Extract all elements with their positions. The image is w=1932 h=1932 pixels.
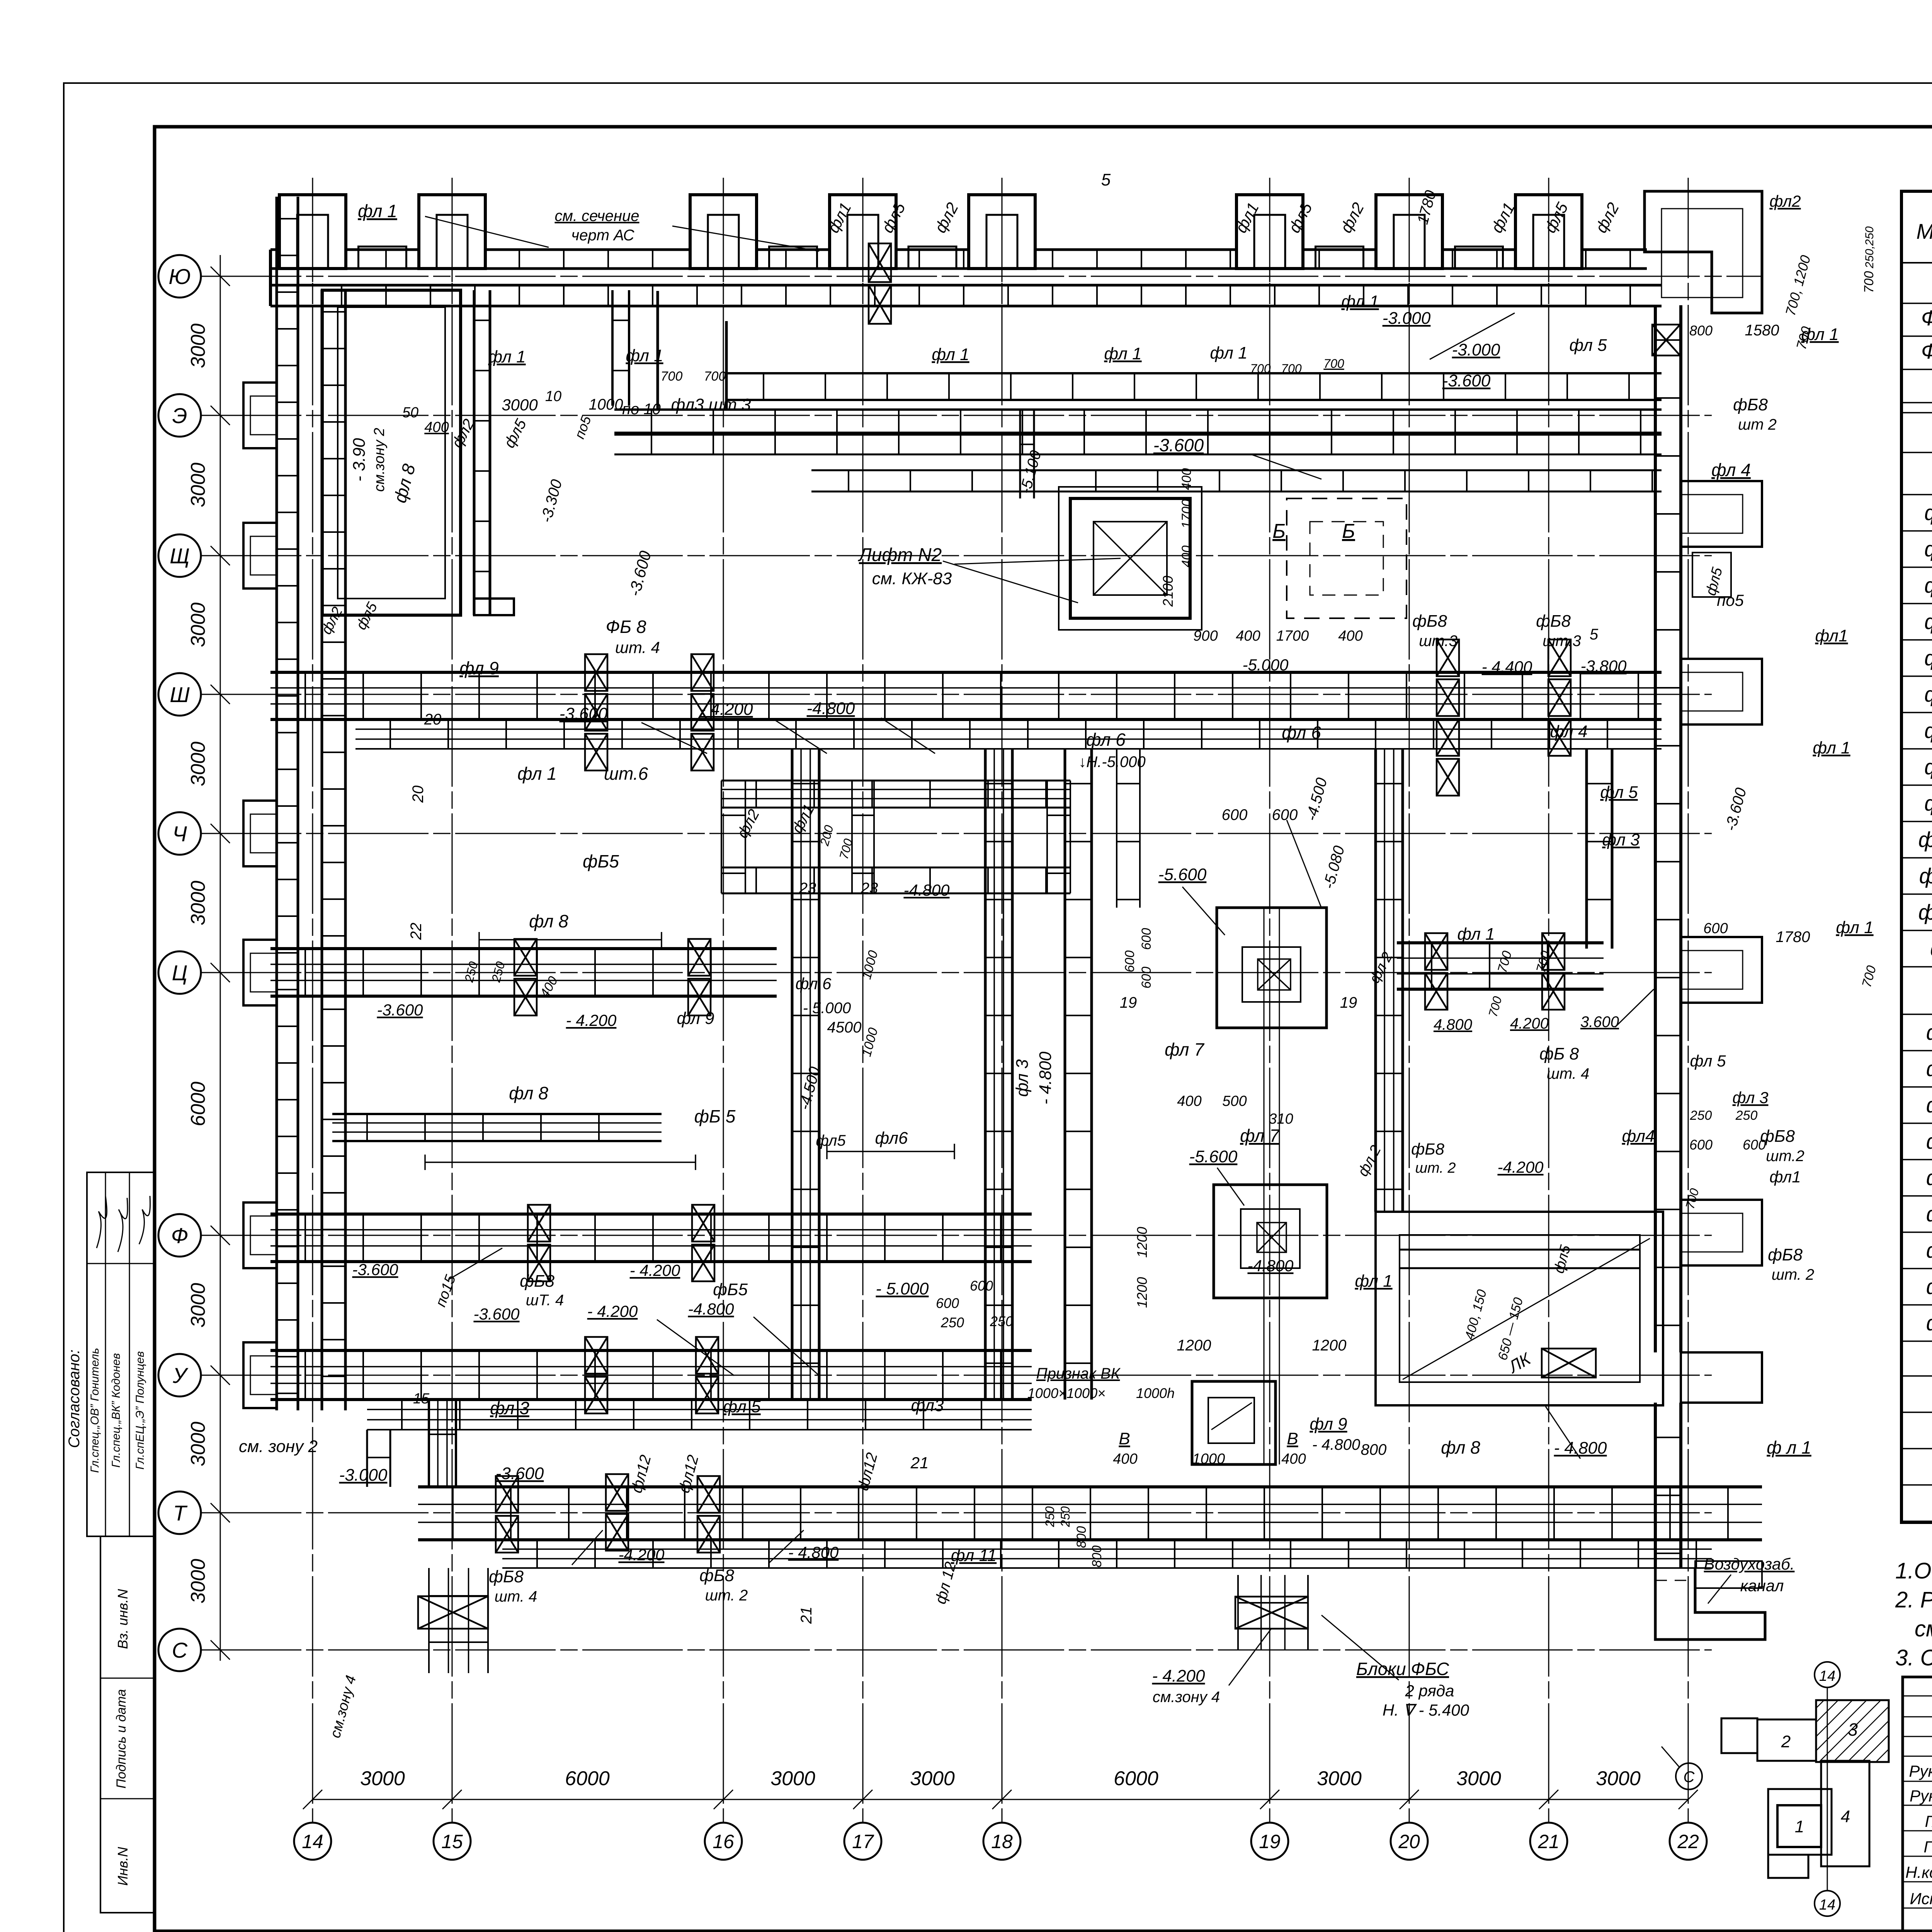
svg-text:900: 900: [1193, 628, 1218, 644]
title block signature table: [1903, 1677, 1932, 1932]
svg-text:16: 16: [713, 1831, 734, 1852]
svg-text:1200: 1200: [1134, 1227, 1150, 1258]
svg-text:фл2: фл2: [734, 806, 763, 841]
pad footing ВК: [1192, 1381, 1276, 1464]
svg-text:фБ8: фБ8: [1733, 395, 1768, 414]
svg-text:фл1: фл1: [1487, 199, 1518, 236]
svg-text:250: 250: [1735, 1108, 1758, 1123]
svg-text:2 ряда: 2 ряда: [1405, 1682, 1454, 1700]
svg-text:фБ9: фБ9: [1926, 1311, 1932, 1335]
key plan circles 14: [1815, 1662, 1840, 1687]
svg-text:С: С: [1684, 1769, 1695, 1786]
svg-text:фл 1: фл 1: [358, 201, 397, 221]
svg-text:фл 2: фл 2: [1924, 537, 1932, 561]
svg-text:14: 14: [1819, 1668, 1835, 1684]
svg-text:фл 2: фл 2: [1366, 949, 1396, 986]
svg-text:фл 5: фл 5: [723, 1397, 761, 1416]
stair block ЛК: [1376, 1212, 1663, 1405]
svg-text:- 4.200: - 4.200: [630, 1261, 680, 1279]
svg-text:фБ8: фБ8: [520, 1272, 554, 1291]
svg-text:фл 5: фл 5: [1600, 783, 1638, 802]
svg-text:ГАП: ГАП: [1925, 1812, 1932, 1830]
svg-text:1000h: 1000h: [1136, 1385, 1175, 1401]
svg-text:шт. 2: шт. 2: [705, 1587, 748, 1604]
svg-text:Согласовано:: Согласовано:: [66, 1349, 83, 1448]
block marks ФБ8 at axis 17 top: [869, 243, 891, 282]
svg-text:фл 2: фл 2: [1355, 1143, 1384, 1179]
svg-text:600: 600: [936, 1295, 959, 1311]
svg-text:фл 1: фл 1: [1924, 500, 1932, 525]
svg-text:5: 5: [1590, 626, 1599, 643]
svg-text:см.зону 4: см.зону 4: [1153, 1689, 1220, 1706]
svg-text:-5.080: -5.080: [1320, 844, 1348, 891]
middle vertical wall x2890 stub: [1116, 749, 1117, 908]
svg-text:фл 12: фл 12: [1918, 900, 1932, 924]
svg-text:4.800: 4.800: [1434, 1016, 1472, 1033]
svg-text:шт. 4: шт. 4: [1547, 1065, 1590, 1082]
svg-text:шт.3: шт.3: [1543, 633, 1581, 650]
opening jambs near axis 16: [656, 291, 659, 410]
svg-text:Т: Т: [173, 1501, 188, 1525]
svg-text:см.зону 2: см.зону 2: [371, 428, 388, 492]
svg-text:-4.200: -4.200: [1497, 1158, 1544, 1176]
block marks on Т: [496, 1476, 518, 1513]
svg-text:фБ7: фБ7: [1926, 1238, 1932, 1262]
left dimension line: [220, 255, 221, 1650]
svg-text:400: 400: [1113, 1451, 1137, 1467]
svg-text:фБ1: фБ1: [1926, 1020, 1932, 1044]
svg-text:- 3.90: - 3.90: [350, 438, 369, 481]
svg-text:2100: 2100: [1160, 576, 1176, 607]
top footing band along axis Ю upper: [270, 248, 1647, 251]
wall band on axis Ц right part: [1397, 941, 1604, 944]
svg-text:Б: Б: [1342, 520, 1355, 543]
svg-text:фБ2: фБ2: [1926, 1056, 1932, 1081]
band фл8 mid-left: [332, 1113, 662, 1115]
svg-text:4500: 4500: [827, 1019, 862, 1036]
wall band on axis Ц left part: [270, 947, 777, 950]
svg-text:1: 1: [1795, 1817, 1804, 1836]
svg-text:шт. 4: шт. 4: [615, 638, 660, 656]
svg-text:Ч: Ч: [172, 821, 187, 846]
grid axis 22: [1688, 178, 1689, 1823]
svg-text:фл5: фл5: [501, 416, 530, 451]
svg-text:600: 600: [1139, 928, 1154, 950]
inventory stamp boxes: [100, 1536, 154, 1913]
stair shaft to axis С left: [428, 1568, 430, 1673]
svg-text:1200: 1200: [1134, 1277, 1150, 1308]
svg-text:фл3: фл3: [911, 1396, 944, 1415]
svg-text:- 4.800: - 4.800: [788, 1543, 839, 1561]
svg-text:фл1: фл1: [1769, 1168, 1801, 1186]
svg-text:1.Общие примечания см. черте: 1.Общие примечания см. чертеж КЖ-3: [1895, 1558, 1932, 1583]
room upper-left outer wall: [322, 290, 461, 615]
grid axis Ц: [201, 972, 1712, 973]
svg-text:500: 500: [1222, 1093, 1247, 1109]
svg-text:700: 700: [1683, 1187, 1702, 1211]
svg-text:В: В: [1119, 1429, 1130, 1448]
svg-text:фл 4: фл 4: [1924, 609, 1932, 634]
svg-text:ФМ-2: ФМ-2: [1921, 339, 1932, 363]
svg-text:по5: по5: [1717, 591, 1744, 609]
svg-text:1000: 1000: [1192, 1451, 1225, 1467]
svg-text:фл2: фл2: [1337, 199, 1367, 236]
svg-text:3: 3: [1848, 1719, 1858, 1740]
opening jamb wall at x1585: [611, 290, 614, 406]
room divider at axis 17: [851, 781, 853, 893]
svg-text:1700: 1700: [1276, 628, 1309, 644]
svg-text:фл 12: фл 12: [932, 1560, 959, 1605]
svg-text:-3.600: -3.600: [1153, 435, 1204, 455]
svg-text:Ш: Ш: [170, 682, 190, 707]
left wall pier pads: [243, 383, 277, 448]
svg-text:фл 4: фл 4: [1550, 722, 1587, 741]
band фл12 below Т: [502, 1539, 1712, 1541]
svg-text:1200: 1200: [1177, 1337, 1211, 1354]
svg-text:3000: 3000: [187, 1422, 209, 1466]
svg-text:фл 5: фл 5: [1690, 1052, 1726, 1070]
svg-text:фБ6: фБ6: [1926, 1202, 1932, 1226]
svg-text:черт АС: черт АС: [571, 227, 635, 244]
svg-text:700: 700: [1486, 995, 1505, 1019]
svg-text:-4.200: -4.200: [618, 1546, 665, 1564]
svg-text:фл 10: фл 10: [1918, 827, 1932, 852]
svg-text:20: 20: [424, 711, 442, 728]
svg-text:ГИП: ГИП: [1923, 1838, 1932, 1856]
small rooms between Ч and Ц: [721, 780, 1070, 782]
svg-text:фБ5: фБ5: [713, 1280, 748, 1299]
wall band on axis Т: [418, 1485, 1762, 1488]
svg-text:1700: 1700: [1179, 499, 1194, 529]
svg-text:3000: 3000: [187, 881, 209, 925]
svg-text:15: 15: [441, 1831, 463, 1852]
left outer wall: [276, 197, 278, 1410]
svg-text:Ю: Ю: [168, 264, 190, 289]
svg-text:700: 700: [1859, 964, 1879, 989]
stamp signatures: [97, 1196, 107, 1248]
svg-text:250: 250: [990, 1313, 1013, 1329]
svg-text:фБ3: фБ3: [1926, 1093, 1932, 1117]
svg-text:6000: 6000: [565, 1767, 610, 1790]
svg-text:Воздухозаб.: Воздухозаб.: [1704, 1555, 1795, 1573]
svg-text:ФМ-1: ФМ-1: [1921, 306, 1932, 330]
svg-text:по5: по5: [571, 413, 594, 441]
middle vertical wall x2550: [984, 749, 987, 1400]
svg-text:Лифт N2: Лифт N2: [858, 545, 942, 565]
svg-text:Б: Б: [1272, 520, 1286, 543]
right wall lower part: [1654, 1403, 1657, 1568]
svg-text:фБ8: фБ8: [1760, 1127, 1795, 1146]
svg-text:Ц: Ц: [172, 961, 188, 985]
svg-text:3000: 3000: [187, 1283, 209, 1328]
svg-text:шт.3: шт.3: [1419, 633, 1457, 650]
svg-text:700: 700: [1495, 949, 1515, 975]
svg-text:фл6: фл6: [875, 1129, 908, 1148]
svg-text:-3.300: -3.300: [538, 478, 566, 524]
svg-text:Признак ВК: Признак ВК: [1036, 1365, 1121, 1382]
svg-text:У: У: [172, 1363, 189, 1388]
svg-text:21: 21: [1537, 1831, 1560, 1852]
middle vertical wall x2756: [1064, 749, 1066, 1400]
svg-text:Гл.спЕЦ.„Э” Полунцев: Гл.спЕЦ.„Э” Полунцев: [134, 1351, 146, 1469]
wall band on axis Ф: [270, 1213, 1032, 1216]
svg-text:фл 5: фл 5: [1924, 646, 1932, 670]
svg-text:600: 600: [970, 1278, 993, 1294]
svg-text:фл2: фл2: [1592, 199, 1622, 236]
svg-text:1000×1000×: 1000×1000×: [1027, 1385, 1105, 1401]
svg-text:4: 4: [1841, 1807, 1850, 1826]
pad footing ФМ1 lower: [1214, 1185, 1327, 1298]
svg-text:фБ8: фБ8: [1926, 1274, 1932, 1299]
svg-text:фл 8: фл 8: [529, 911, 568, 931]
svg-text:ФБ 8: ФБ 8: [606, 617, 646, 637]
svg-text:фБ8: фБ8: [1412, 612, 1447, 631]
svg-text:700, 1200: 700, 1200: [1782, 253, 1813, 317]
section square Б dashed: [1287, 498, 1406, 618]
svg-text:19: 19: [1120, 994, 1137, 1011]
svg-text:22: 22: [408, 923, 425, 940]
svg-text:- 4.400: - 4.400: [1482, 658, 1532, 676]
right wall teeth: [1681, 481, 1762, 547]
svg-text:14: 14: [1819, 1897, 1835, 1913]
vertical wall x2650 from Э: [1019, 410, 1021, 498]
svg-text:3000: 3000: [1596, 1767, 1641, 1790]
svg-text:700: 700: [661, 369, 683, 384]
svg-text:шт.6: шт.6: [604, 764, 648, 784]
svg-text:фл2: фл2: [1769, 192, 1801, 210]
svg-text:Э: Э: [172, 403, 187, 428]
svg-text:-3.600: -3.600: [352, 1260, 398, 1279]
svg-text:фл 9: фл 9: [677, 1009, 714, 1028]
block marks ФБ8 on axis Ш: [585, 654, 607, 691]
strip footing lines through pads on axis 19: [1264, 908, 1265, 1464]
svg-text:Рук.АБ1: Рук.АБ1: [1909, 1762, 1932, 1780]
stair block inner wall: [1400, 1249, 1640, 1251]
footing band below axis Э: [614, 434, 1662, 436]
bottom dimension line: [313, 1799, 1688, 1800]
svg-text:фл2: фл2: [931, 199, 962, 236]
svg-text:В: В: [1287, 1429, 1298, 1448]
svg-text:фл 7: фл 7: [1924, 718, 1932, 743]
air intake channel: [1695, 1561, 1762, 1588]
svg-text:- 4.200: - 4.200: [587, 1302, 638, 1320]
svg-text:23: 23: [799, 880, 816, 897]
svg-text:3.600: 3.600: [1580, 1014, 1619, 1031]
svg-text:фБ 8: фБ 8: [1539, 1044, 1579, 1063]
svg-text:фл 6: фл 6: [1086, 730, 1126, 750]
svg-text:фл 1: фл 1: [1813, 738, 1850, 757]
svg-text:фБ8: фБ8: [1768, 1245, 1803, 1264]
svg-text:600: 600: [1272, 806, 1298, 823]
footing band on axis Э: [614, 408, 1662, 411]
svg-text:- 4.200: - 4.200: [1152, 1667, 1206, 1685]
svg-text:800: 800: [1689, 323, 1713, 338]
svg-text:фл5: фл5: [816, 1132, 846, 1149]
svg-text:700: 700: [1281, 362, 1302, 376]
svg-text:800: 800: [1074, 1526, 1089, 1548]
svg-text:шТ. 4: шТ. 4: [526, 1292, 564, 1309]
svg-text:-5.000: -5.000: [1242, 656, 1289, 674]
grid axis 19: [1269, 178, 1270, 1823]
svg-text:3000: 3000: [187, 323, 209, 368]
svg-text:3000: 3000: [187, 602, 209, 647]
svg-text:Гл.спец.„ВК” Кодонев: Гл.спец.„ВК” Кодонев: [110, 1353, 122, 1468]
wall between У and Т: [428, 1400, 430, 1487]
dim bracket фл8 above Ф: [425, 1162, 696, 1163]
svg-text:фл 11: фл 11: [1919, 864, 1932, 888]
svg-text:Вз. инв.N: Вз. инв.N: [115, 1588, 131, 1649]
svg-text:фБ5: фБ5: [1926, 1165, 1932, 1190]
fourth band below Э: [811, 469, 1662, 471]
svg-text:-5.600: -5.600: [1189, 1147, 1238, 1166]
svg-text:700: 700: [1862, 271, 1876, 293]
svg-text:-3.600: -3.600: [473, 1305, 520, 1323]
svg-text:фл5: фл5: [1551, 1243, 1574, 1275]
grid axis 18: [1002, 178, 1003, 1823]
grid axis Т: [201, 1512, 1712, 1514]
svg-text:-3.600: -3.600: [377, 1001, 423, 1019]
svg-text:Н. ∇ - 5.400: Н. ∇ - 5.400: [1383, 1701, 1469, 1719]
svg-text:фл 3: фл 3: [1733, 1088, 1769, 1107]
svg-text:фл 1: фл 1: [1210, 344, 1247, 362]
svg-text:-4.800: -4.800: [903, 881, 950, 899]
svg-text:3000: 3000: [910, 1767, 955, 1790]
svg-text:250: 250: [1058, 1506, 1072, 1527]
svg-text:↓Н.-5.000: ↓Н.-5.000: [1078, 753, 1145, 770]
svg-text:фл 6: фл 6: [1282, 723, 1321, 743]
svg-text:С: С: [172, 1638, 188, 1662]
svg-text:-3.600: -3.600: [560, 704, 608, 723]
svg-text:3000: 3000: [1456, 1767, 1501, 1790]
svg-text:-3.600: -3.600: [496, 1464, 544, 1483]
left inner wall: [321, 290, 323, 1410]
svg-text:фл12: фл12: [628, 1453, 654, 1495]
svg-text:фл 1: фл 1: [1801, 325, 1838, 344]
svg-text:-3.600: -3.600: [1722, 786, 1750, 833]
svg-text:600: 600: [1703, 920, 1728, 937]
svg-text:22: 22: [1677, 1831, 1699, 1852]
svg-text:Исполн.: Исполн.: [1910, 1889, 1932, 1908]
svg-text:800: 800: [1090, 1546, 1104, 1568]
svg-text:ф 1: ф 1: [1930, 936, 1932, 961]
dim bracket фл6 right mid: [827, 1151, 954, 1152]
svg-text:см. чертеж КЖ-7 ÷ КЖ-11: см. чертеж КЖ-7 ÷ КЖ-11: [1915, 1616, 1932, 1641]
wall фл9 right of upper-left room: [473, 290, 476, 615]
svg-text:3000: 3000: [187, 742, 209, 786]
pad footing ФМ1 upper: [1217, 908, 1327, 1028]
svg-text:Гл.спец.„ОВ” Гонитель: Гл.спец.„ОВ” Гонитель: [88, 1348, 101, 1473]
top footing band along axis Ю lower: [270, 284, 1662, 287]
svg-text:400: 400: [1179, 468, 1194, 490]
svg-text:фБ8: фБ8: [699, 1566, 734, 1585]
svg-text:- 4.800: - 4.800: [1036, 1051, 1055, 1105]
grid axis 20: [1409, 178, 1410, 1823]
grid axis Щ: [201, 555, 1712, 556]
svg-text:19: 19: [1340, 994, 1357, 1011]
svg-text:фл 3: фл 3: [1013, 1059, 1032, 1097]
svg-text:-4.500: -4.500: [1303, 776, 1331, 823]
svg-text:фл 4: фл 4: [1711, 460, 1751, 480]
svg-text:- 4.200: - 4.200: [700, 700, 753, 719]
svg-text:3000: 3000: [1317, 1767, 1362, 1790]
grid axis 15: [452, 178, 453, 1823]
svg-text:ф л 1: ф л 1: [1767, 1437, 1811, 1458]
svg-text:фл 7: фл 7: [1165, 1039, 1204, 1060]
svg-text:фл 9: фл 9: [1924, 791, 1932, 815]
svg-text:фл 9: фл 9: [459, 658, 499, 678]
svg-text:20: 20: [1398, 1831, 1420, 1852]
svg-text:фл 8: фл 8: [1441, 1437, 1480, 1458]
wall stub x950 between У and Т: [366, 1430, 368, 1487]
block marks on Ц: [514, 939, 537, 976]
svg-text:фл 3: фл 3: [1924, 573, 1932, 597]
svg-text:250: 250: [940, 1315, 964, 1330]
svg-text:Щ: Щ: [170, 544, 190, 568]
svg-text:шт.2: шт.2: [1766, 1148, 1804, 1165]
block mark near axis 22 top: [1652, 325, 1680, 355]
svg-text:21: 21: [798, 1607, 815, 1624]
svg-text:фл3 шт.3: фл3 шт.3: [671, 395, 751, 414]
svg-text:Марка: Марка: [1916, 219, 1932, 243]
svg-text:3. Сечения А-А , Б-Б, В-В с: 3. Сечения А-А , Б-Б, В-В см. КЖ-10: [1895, 1645, 1932, 1670]
svg-text:600: 600: [1689, 1137, 1713, 1153]
svg-text:1580: 1580: [1745, 322, 1779, 339]
pad фл5 on right wall: [1692, 553, 1731, 597]
svg-text:фл 1: фл 1: [517, 764, 557, 784]
right outer wall: [1654, 305, 1657, 1352]
right bottom step to С: [1655, 1568, 1765, 1639]
svg-text:-3.000: -3.000: [339, 1466, 388, 1485]
svg-text:Н.контр.: Н.контр.: [1905, 1863, 1932, 1881]
svg-text:-4.800: -4.800: [1247, 1257, 1294, 1275]
svg-text:800: 800: [1361, 1441, 1387, 1458]
svg-text:1000: 1000: [589, 396, 623, 413]
svg-text:фл 1: фл 1: [1341, 292, 1379, 311]
svg-text:фл 3: фл 3: [1602, 830, 1640, 849]
svg-text:600: 600: [1139, 967, 1154, 989]
key plan zone rectangles: [1757, 1719, 1816, 1761]
lift pit Лифт N2: [1059, 487, 1202, 630]
vertical wall x3560 center: [1374, 749, 1377, 1212]
svg-text:2: 2: [1781, 1732, 1791, 1751]
grid axis С: [201, 1650, 1712, 1651]
grid axis Э: [201, 415, 1712, 416]
middle vertical wall x2050: [791, 749, 794, 1400]
svg-text:фл 1: фл 1: [1457, 925, 1495, 944]
svg-text:фл 5: фл 5: [1569, 336, 1607, 355]
wall band on axis У: [270, 1349, 1032, 1352]
svg-text:400: 400: [424, 419, 449, 435]
svg-text:3000: 3000: [187, 463, 209, 507]
svg-text:50: 50: [402, 405, 418, 421]
svg-text:5: 5: [1101, 170, 1111, 189]
svg-text:1200: 1200: [1312, 1337, 1347, 1354]
svg-text:-5.600: -5.600: [1158, 865, 1207, 884]
svg-text:20: 20: [410, 786, 427, 803]
svg-text:700: 700: [1323, 357, 1344, 371]
duct shaft to axis С right: [1237, 1575, 1239, 1650]
table rows: [1901, 303, 1932, 304]
svg-text:канал: канал: [1740, 1577, 1784, 1595]
svg-text:Инв.N: Инв.N: [115, 1847, 131, 1886]
grid axis Ф: [201, 1235, 1712, 1236]
svg-text:фл 1: фл 1: [1355, 1272, 1392, 1291]
svg-text:-4.800: -4.800: [688, 1300, 734, 1318]
dim bracket фл8 at Ц: [479, 939, 662, 940]
svg-text:шт. 4: шт. 4: [495, 1588, 537, 1605]
svg-text:600: 600: [1222, 806, 1248, 823]
svg-text:фл 6: фл 6: [1924, 682, 1932, 706]
